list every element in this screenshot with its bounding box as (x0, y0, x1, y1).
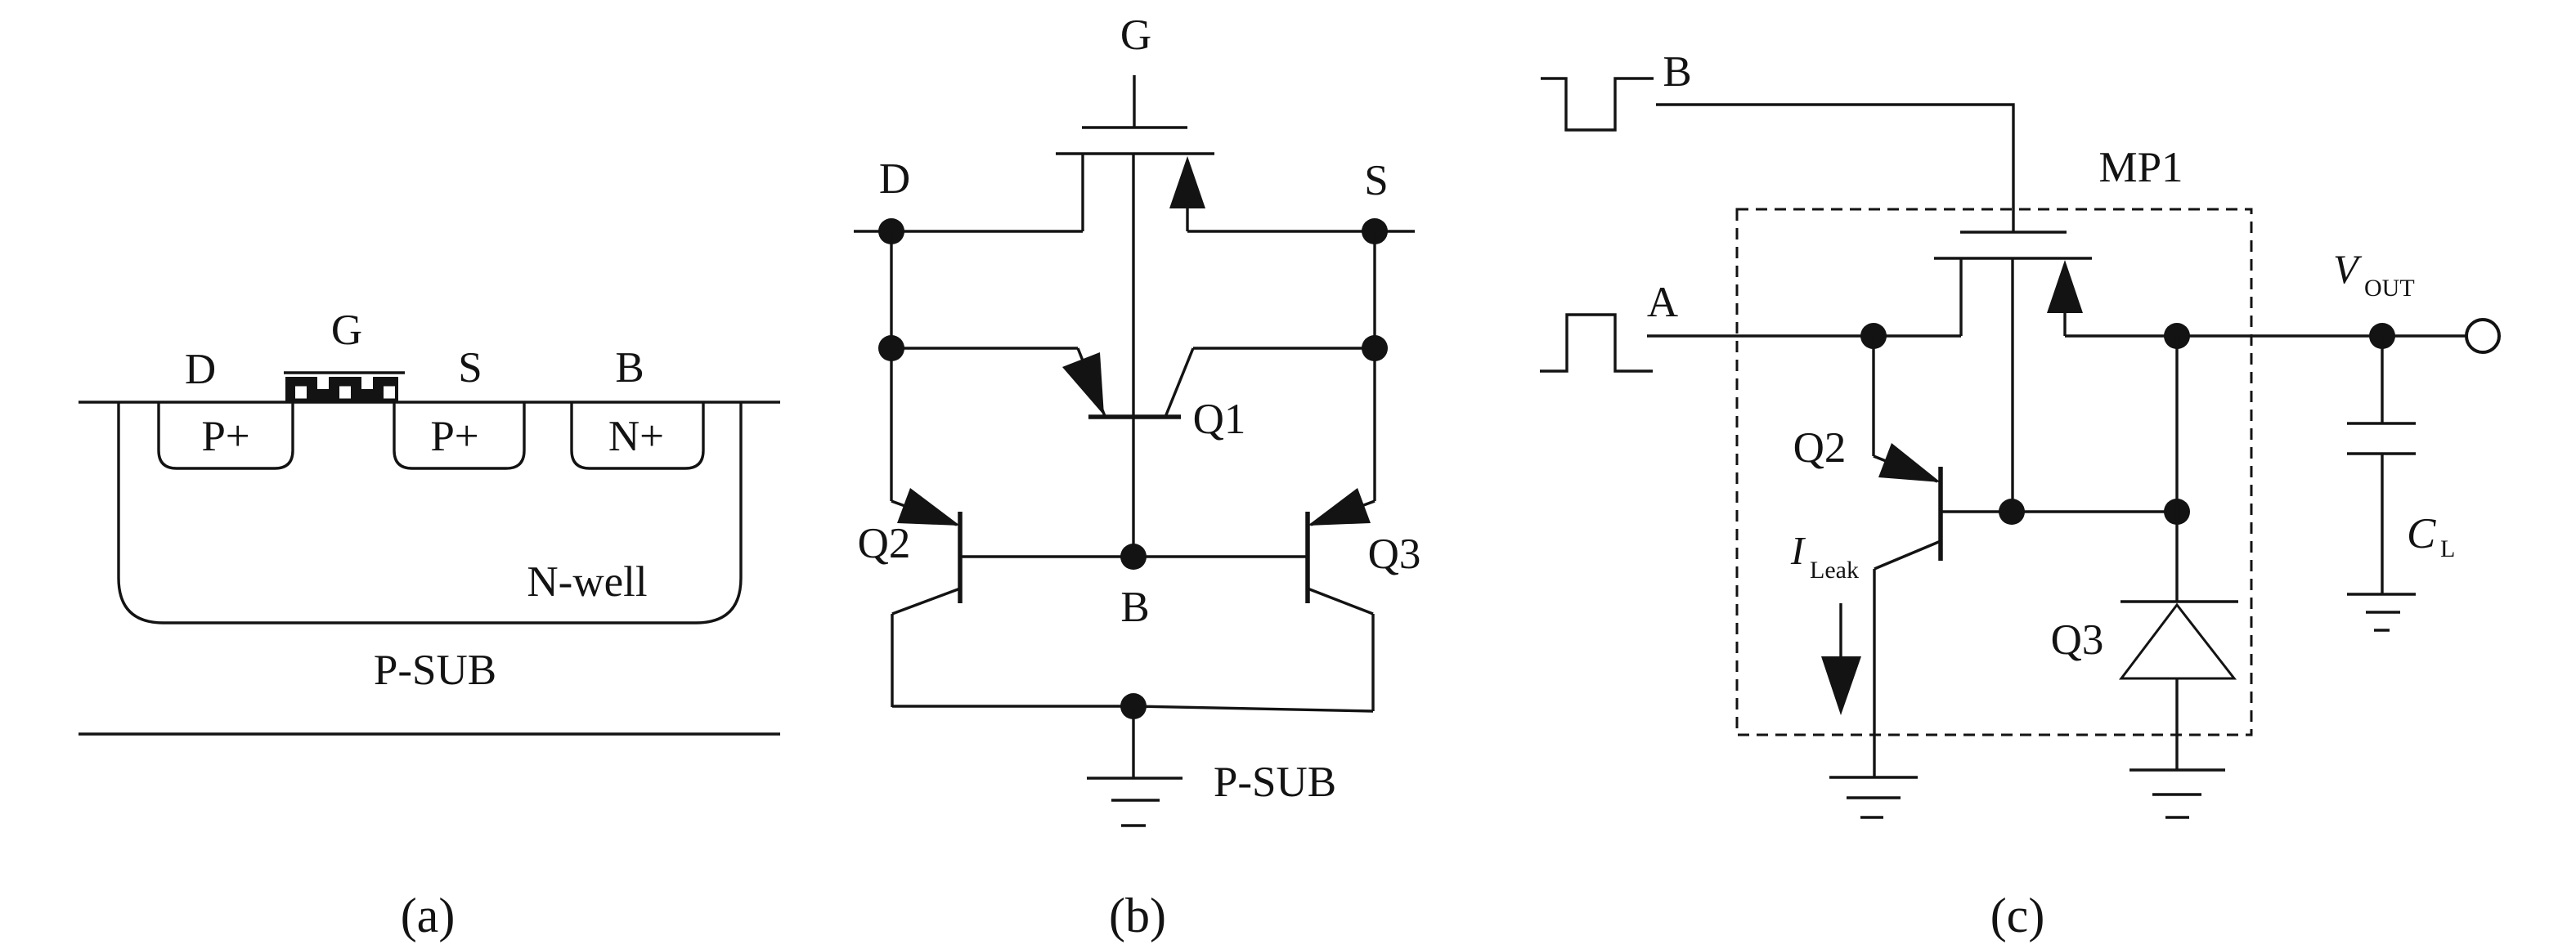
silicon surface line (79, 401, 780, 403)
capacitor CL plates (2347, 422, 2416, 424)
diode Q3 lead (panel c) (2175, 512, 2178, 602)
svg-text:Q2: Q2 (858, 520, 911, 567)
P+ source diffusion well (394, 402, 524, 468)
wire MP1 drain stub (1959, 258, 1962, 336)
node dot Vout (2369, 323, 2395, 349)
svg-text:P+: P+ (430, 413, 478, 460)
substrate bottom line (79, 732, 780, 735)
diode Q3 anode lead (2175, 678, 2178, 770)
node dot base-bulk (1999, 499, 2025, 525)
waveform input A (1540, 315, 1653, 371)
wire G lead (1133, 75, 1135, 128)
svg-text:Leak: Leak (1810, 557, 1859, 584)
PMOS gate bar (1082, 126, 1187, 128)
PMOS channel bar (1056, 152, 1214, 154)
svg-text:P-SUB: P-SUB (374, 647, 496, 694)
capacitor CL top lead (2381, 336, 2383, 423)
gate polysilicon hatched band (285, 377, 398, 401)
svg-text:P+: P+ (201, 413, 249, 460)
leakage current arrow (1839, 603, 1842, 656)
svg-text:S: S (458, 344, 482, 392)
capacitor CL bottom lead (2381, 454, 2383, 594)
wire B to gate (1656, 105, 2013, 232)
transistor Q1 collector (1165, 348, 1193, 417)
wire top rail D-S (854, 230, 1083, 232)
svg-text:S: S (1364, 157, 1388, 204)
svg-text:D: D (879, 155, 910, 203)
svg-text:Q3: Q3 (2051, 616, 2104, 664)
waveform input B (1541, 78, 1654, 130)
node dot S top (1362, 218, 1388, 244)
wire right vertical (1373, 231, 1376, 501)
wire bulk centre line (1132, 154, 1134, 557)
dashed device boundary box (1737, 209, 2251, 735)
transistor Q3 base bar (panel b) (1305, 512, 1310, 603)
svg-text:B: B (615, 344, 644, 392)
wire ground stem (panel b) (1132, 706, 1134, 778)
PMOS source arrow (1186, 208, 1188, 231)
transistor MP1 gate bar (1960, 231, 2067, 233)
svg-text:B: B (1663, 48, 1691, 96)
svg-text:(a): (a) (401, 889, 456, 942)
node dot D top (878, 218, 904, 244)
transistor Q3 emitter (panel b) (1311, 501, 1375, 525)
transistor Q2 collector (panel b) (892, 589, 960, 614)
ground (CL) (2347, 593, 2416, 595)
transistor Q1 base bar (1088, 414, 1181, 419)
transistor Q2 collector (panel c) (1874, 541, 1941, 569)
wire second row right (1193, 347, 1375, 349)
transistor Q3 collector (panel b) (1308, 589, 1373, 614)
wire right drop to base row (2175, 336, 2178, 512)
svg-text:L: L (2440, 535, 2455, 562)
svg-text:N-well: N-well (527, 558, 647, 606)
node dot right second row (1362, 335, 1388, 361)
svg-text:MP1: MP1 (2098, 144, 2183, 191)
ground (Q3, panel c) (2129, 768, 2225, 771)
output terminal circle (2466, 320, 2499, 352)
transistor Q2 emitter (panel c) (1872, 336, 1874, 456)
transistor Q2 emitter (panel b) (891, 501, 957, 525)
svg-text:P-SUB: P-SUB (1214, 759, 1336, 806)
N-well boundary (119, 402, 741, 623)
diode Q3 cathode bar (2120, 600, 2238, 602)
wire drain stub (1081, 154, 1084, 231)
wire base row (panel c) (1941, 510, 2177, 513)
wire MP1 bulk line (2011, 258, 2013, 512)
svg-text:C: C (2407, 510, 2436, 557)
wire base row B (960, 555, 1308, 557)
ground (Q2 collector, panel c) (1829, 776, 1918, 778)
N+ body-contact diffusion well (572, 402, 703, 468)
svg-text:Q1: Q1 (1193, 396, 1246, 443)
svg-text:N+: N+ (608, 413, 664, 460)
wire A output rail (1647, 334, 1961, 337)
transistor Q2 base bar (panel c) (1938, 467, 1943, 561)
node dot A-right (2164, 323, 2190, 349)
svg-text:G: G (1120, 11, 1151, 59)
svg-text:OUT: OUT (2364, 275, 2415, 302)
node dot A-left (1860, 323, 1887, 349)
svg-text:G: G (331, 307, 362, 354)
svg-text:(c): (c) (1990, 889, 2045, 942)
node dot left second row (878, 335, 904, 361)
svg-text:Q3: Q3 (1368, 530, 1421, 578)
node dot base-right (2164, 499, 2190, 525)
ground P-SUB (panel b) (1087, 777, 1183, 779)
transistor MP1 source arrow (2063, 313, 2066, 336)
transistor Q2 base bar (panel b) (958, 512, 963, 603)
wire second row left (891, 347, 1078, 349)
transistor Q1 emitter (1078, 348, 1105, 416)
gate top contact line (284, 371, 405, 374)
wire bottom collector rail (892, 705, 1133, 707)
wire left vertical (890, 231, 892, 501)
svg-text:I: I (1790, 528, 1806, 573)
node dot B (1120, 544, 1147, 570)
transistor MP1 channel bar (1934, 257, 2092, 259)
svg-text:(b): (b) (1109, 889, 1166, 942)
diode Q3 triangle (2121, 605, 2234, 678)
svg-text:V: V (2333, 246, 2363, 292)
svg-text:Q2: Q2 (1793, 424, 1847, 472)
svg-text:A: A (1647, 279, 1678, 326)
svg-text:D: D (185, 346, 216, 393)
svg-text:B: B (1120, 584, 1149, 631)
node dot bottom (1120, 693, 1147, 719)
P+ drain diffusion well (159, 402, 293, 468)
